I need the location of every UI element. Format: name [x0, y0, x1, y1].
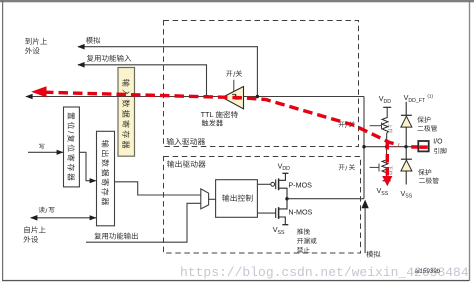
analog bottom wire — [364, 208, 366, 254]
label write — [39, 144, 44, 149]
pull-up switch control — [370, 123, 382, 129]
bit set/reset register label — [66, 112, 75, 180]
label protection diode (upper) — [417, 116, 437, 131]
label analog (top) — [86, 37, 100, 44]
alternate function output wire — [86, 203, 201, 242]
svg-text:ai15939b: ai15939b — [415, 268, 441, 275]
red path pull-down branch — [386, 141, 389, 177]
label analog (bottom) — [366, 251, 380, 258]
label protection diode (lower) — [418, 169, 439, 184]
resistor R-pulldown — [382, 147, 388, 181]
read/write left arrowhead — [30, 215, 37, 221]
input data register label — [122, 79, 129, 148]
label output driver — [167, 160, 205, 167]
resistor R-pullup — [382, 107, 388, 146]
wire set/reset to output register — [79, 152, 95, 180]
output data register label — [102, 140, 109, 205]
node AF-input tap — [205, 95, 208, 98]
svg-text:VSS: VSS — [273, 225, 285, 236]
svg-text:VSS: VSS — [401, 189, 413, 200]
wire mux to output control — [209, 198, 216, 200]
red branch down arrowhead — [382, 176, 392, 186]
label TTL schmitt trigger — [201, 110, 238, 126]
label VDD (P-MOS) — [278, 161, 291, 172]
label VDD_FT — [404, 93, 434, 104]
analog top arrowhead — [77, 44, 84, 50]
output mux — [201, 189, 209, 209]
label pull-down tiny — [388, 166, 392, 175]
svg-text:P-MOS: P-MOS — [288, 181, 312, 190]
output driver dashed box — [164, 157, 361, 254]
read/write wire — [31, 217, 96, 219]
alternate function input wire — [78, 65, 207, 97]
svg-text:TTL: TTL — [201, 110, 214, 119]
node pin-line left — [362, 145, 365, 148]
svg-text:/: / — [345, 166, 347, 173]
pull-down switch control — [370, 164, 379, 172]
red path left arrowhead — [31, 86, 46, 97]
label to-on-chip-peripheral — [25, 38, 47, 54]
label N-MOS — [288, 208, 312, 217]
label VDD (pull-up) — [379, 94, 392, 105]
label on/off (schmitt) — [226, 70, 242, 79]
label VSS (N-MOS) — [273, 225, 285, 236]
label VSS (pull-down) — [377, 186, 389, 197]
arrowhead into output register — [90, 178, 97, 183]
label push-pull open-drain disabled — [297, 228, 317, 253]
analog bottom arrowhead — [361, 200, 368, 209]
I/O pin wire — [364, 146, 418, 148]
svg-text:N-MOS: N-MOS — [288, 208, 312, 217]
output data register box — [97, 131, 115, 226]
svg-text:/: / — [233, 70, 235, 79]
write arrowhead — [57, 150, 64, 155]
label P-MOS — [288, 181, 312, 190]
wire output control to P-MOS gate — [257, 183, 270, 185]
wire output register to mux — [115, 182, 201, 195]
output control box — [216, 180, 258, 218]
svg-text:I/O: I/O — [433, 139, 443, 146]
P-MOS gate bubble — [271, 182, 275, 186]
figure id ai15939b — [415, 268, 441, 275]
svg-text:VDD_FT (1): VDD_FT (1) — [404, 93, 434, 104]
node pull tap — [385, 145, 388, 148]
svg-text:VDD: VDD — [278, 161, 291, 172]
analog top wire — [78, 47, 257, 97]
alternate function input arrowhead — [77, 62, 84, 68]
svg-text:/: / — [45, 208, 47, 215]
input data register box (highlighted) — [118, 68, 135, 157]
svg-text:VDD: VDD — [379, 94, 392, 105]
diode D2 (to VSS) — [401, 147, 412, 185]
wire output control to N-MOS gate — [257, 212, 275, 214]
write wire — [28, 151, 63, 153]
node diode tap — [404, 145, 407, 148]
diode D1 (to VDD_FT) — [401, 102, 412, 147]
I/O pin pad — [418, 141, 428, 151]
label VSS (diode) — [401, 189, 413, 200]
label read/write — [39, 207, 55, 216]
TTL schmitt trigger U1 — [222, 87, 243, 109]
red input signal path — [44, 92, 399, 145]
bit set/reset register box — [64, 107, 80, 187]
input driver dashed box — [164, 21, 359, 147]
label on/off (pull-up) — [339, 121, 355, 130]
label I/O pin — [433, 139, 446, 154]
node analog tap — [256, 95, 259, 98]
main vertical wire — [363, 97, 365, 199]
watermark text — [180, 265, 469, 280]
schmitt on/off switch leader — [233, 80, 235, 92]
red dash inside pin pad — [419, 145, 427, 149]
VSS rail bar (pull-down) — [383, 180, 391, 182]
label input driver — [167, 138, 205, 145]
label alternate function input — [87, 55, 131, 62]
label on/off (pull-down) — [339, 164, 355, 173]
label pull-up tiny — [388, 124, 392, 133]
output wire to pin column — [287, 198, 364, 200]
read/write right arrowhead — [90, 215, 97, 220]
transistor N-MOS — [276, 199, 289, 225]
main input arrowhead — [25, 94, 32, 100]
label output control — [222, 194, 252, 201]
label from on-chip peripheral — [24, 226, 46, 242]
node MOS midpoint — [285, 197, 288, 200]
main input wire — [26, 96, 364, 98]
VDD rail bar — [383, 106, 391, 108]
svg-text:VSS: VSS — [377, 186, 389, 197]
label alternate function output — [94, 232, 137, 239]
red dash before pin pad — [411, 145, 417, 149]
transistor P-MOS — [276, 173, 289, 198]
